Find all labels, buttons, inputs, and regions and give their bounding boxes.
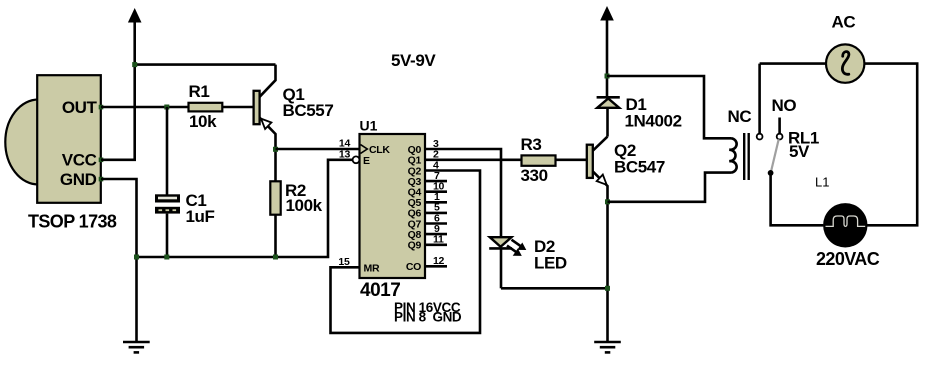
wire VCC pin to rail bbox=[101, 159, 136, 162]
stub pin 12 CO bbox=[425, 265, 447, 268]
svg-text:10k: 10k bbox=[189, 112, 217, 131]
wire AC left to NC bbox=[760, 62, 827, 65]
IR receiver TSOP 1738 bbox=[5, 75, 101, 203]
svg-text:R3: R3 bbox=[521, 135, 542, 154]
resistor R1 bbox=[189, 82, 223, 131]
ground symbol right bbox=[594, 342, 621, 352]
pin 13 E inversion bubble bbox=[353, 156, 360, 163]
svg-text:4017: 4017 bbox=[360, 280, 400, 301]
NC contact terminal bbox=[757, 134, 763, 140]
node C1 on rail bbox=[164, 255, 169, 260]
wire relay coil bottom to Q2 emitter node bbox=[608, 173, 732, 202]
stub pin 1 Q5 bbox=[425, 201, 447, 204]
node LED return on emitter line bbox=[605, 286, 610, 291]
switch arm bbox=[771, 139, 779, 170]
wire OUT net (TSOP OUT to R1) bbox=[101, 106, 189, 109]
node +V tap right bbox=[605, 74, 610, 79]
pin dot GND bbox=[99, 177, 104, 182]
IC U1 4017 bbox=[360, 118, 426, 302]
svg-text:100k: 100k bbox=[286, 196, 323, 215]
power arrow VCC left bbox=[128, 8, 142, 160]
svg-text:BC547: BC547 bbox=[614, 158, 665, 177]
diode D1 1N4002 bbox=[597, 95, 682, 136]
svg-text:220VAC: 220VAC bbox=[816, 249, 880, 269]
transistor Q2 BC547 bbox=[587, 137, 665, 342]
node ground drop on rail bbox=[134, 255, 139, 260]
switch pivot dot bbox=[768, 170, 774, 176]
AC source bbox=[826, 13, 864, 83]
svg-text:5V-9V: 5V-9V bbox=[391, 51, 436, 70]
wire pivot to lamp bbox=[771, 175, 824, 226]
svg-text:LED: LED bbox=[534, 254, 567, 273]
wire R3 to Q2 base bbox=[556, 159, 588, 162]
LED D2 bbox=[489, 237, 567, 288]
wire +V to relay coil top bbox=[607, 76, 732, 138]
power arrow VCC right bbox=[600, 6, 614, 96]
wire Q0 to LED drop bbox=[425, 149, 501, 236]
node relay return on emitter line bbox=[605, 199, 610, 204]
svg-text:MR: MR bbox=[364, 263, 380, 275]
svg-text:5V: 5V bbox=[789, 142, 810, 161]
svg-text:1N4002: 1N4002 bbox=[625, 112, 682, 131]
svg-text:330: 330 bbox=[521, 166, 548, 185]
pin 14 CLK clock triangle bbox=[361, 145, 368, 154]
svg-text:1uF: 1uF bbox=[186, 207, 215, 226]
transistor Q1 BC557 bbox=[254, 65, 334, 150]
capacitor C1 bbox=[155, 107, 215, 257]
svg-text:CLK: CLK bbox=[369, 144, 390, 156]
stub pin 7 Q3 bbox=[425, 180, 447, 183]
stub pin 9 Q8 bbox=[425, 233, 447, 236]
svg-text:BC557: BC557 bbox=[283, 101, 334, 120]
wire R1 to Q1 base bbox=[222, 106, 254, 109]
node supply-left junction bbox=[132, 62, 137, 67]
svg-text:E: E bbox=[363, 155, 370, 167]
wire MR net (pin 15 feedback from Q2 pin 4) bbox=[331, 171, 481, 333]
svg-text:GND: GND bbox=[60, 170, 97, 189]
NO contact terminal bbox=[777, 134, 783, 140]
svg-text:TSOP 1738: TSOP 1738 bbox=[28, 212, 117, 232]
svg-text:Q9: Q9 bbox=[408, 240, 422, 252]
ground symbol left bbox=[123, 342, 150, 352]
resistor R3 bbox=[521, 135, 556, 185]
svg-text:OUT: OUT bbox=[62, 98, 98, 117]
node C1 tap on OUT wire bbox=[164, 105, 169, 110]
wire AC right loop to lamp bbox=[864, 64, 917, 226]
svg-text:VCC: VCC bbox=[62, 150, 97, 169]
svg-text:NC: NC bbox=[728, 107, 752, 126]
svg-text:13: 13 bbox=[339, 149, 351, 161]
ground rail bottom-left (to 4017 E pin) bbox=[135, 160, 352, 257]
wire VCC rail top (left supply to Q1 collector) bbox=[135, 63, 276, 66]
wire NC terminal from AC loop bbox=[758, 64, 761, 134]
svg-text:PIN 8 GND: PIN 8 GND bbox=[394, 310, 462, 325]
NO stub wire bbox=[778, 118, 781, 134]
svg-text:NO: NO bbox=[772, 96, 797, 115]
svg-text:L1: L1 bbox=[815, 175, 829, 190]
pin dot VCC bbox=[99, 158, 104, 163]
resistor R2 bbox=[270, 149, 322, 257]
stub pin 11 Q9 bbox=[425, 244, 447, 247]
stub pin 6 Q7 bbox=[425, 222, 447, 225]
wire LED return to emitter line bbox=[501, 287, 608, 290]
node Q1 emitter / CLK junction bbox=[273, 147, 278, 152]
relay coil RL1 bbox=[729, 133, 748, 180]
stub pin 10 Q4 bbox=[425, 190, 447, 193]
wire GND pin to ground drop bbox=[101, 179, 137, 341]
stub pin 5 Q6 bbox=[425, 212, 447, 215]
svg-text:CO: CO bbox=[406, 261, 421, 273]
node R2 on rail bbox=[273, 255, 278, 260]
lamp L1 bbox=[815, 175, 880, 269]
svg-text:AC: AC bbox=[832, 13, 856, 32]
wire CLK net (Q1 emitter to 4017 CLK) bbox=[276, 148, 360, 151]
svg-text:R1: R1 bbox=[189, 82, 210, 101]
wire Q1 pin to R3 bbox=[425, 159, 522, 162]
svg-text:U1: U1 bbox=[360, 118, 378, 134]
pin dot OUT bbox=[99, 105, 104, 110]
